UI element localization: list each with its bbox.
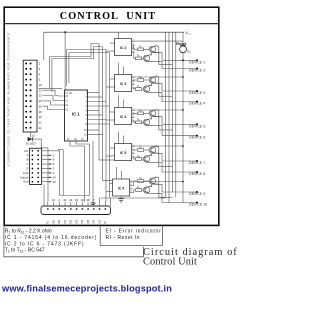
transistor T9 (149, 178, 155, 184)
wire: device output 10 (148, 193, 162, 202)
wire: IC 1 bottom pins down to lower port (70, 141, 85, 202)
wire: CN2 column riser to lower port (62, 150, 64, 196)
wire stubs: IC 1 outputs to bus (88, 92, 100, 94)
wire: device output 1 (154, 53, 162, 61)
wire: base drive IC 3 to T3 (133, 80, 136, 82)
svg-text:R6: R6 (137, 118, 140, 122)
resistor R9 (138, 180, 144, 183)
svg-text:16: 16 (81, 198, 85, 202)
title separator rule (5, 23, 219, 25)
svg-text:Unlock: Unlock (20, 175, 29, 179)
wire: base drive IC 2 to T2 (133, 51, 136, 53)
wire: collector rail above lower port (60, 195, 90, 197)
flip-flop IC 3 (7473 JKFF) (115, 75, 132, 92)
schematic border frame (4, 7, 219, 225)
wire: base drive IC 6 to T9 (133, 185, 134, 187)
connector CN1 (port, 2-column pin header) (23, 60, 37, 132)
wire: base drive IC 6 to T10 (133, 192, 134, 194)
svg-text:23: 23 (53, 180, 57, 184)
wire: device output 3 (154, 83, 162, 91)
transistor T6 (143, 119, 149, 125)
connector CN2 (control lines header) (30, 148, 42, 184)
svg-text:IC 5: IC 5 (120, 151, 126, 155)
wire: base drive IC 3 to T4 (133, 87, 136, 89)
wire: T8 collector branch (148, 153, 159, 156)
IC 1 right pin numbers (84, 91, 87, 137)
wire: Vcc to reset button (182, 32, 184, 46)
svg-text:R4: R4 (137, 85, 140, 89)
wire: base drive IC 2 to T1 (133, 44, 136, 46)
svg-text:A: A (27, 153, 29, 157)
wire bundle: CN1 to IC 1 address inputs (43, 90, 65, 96)
wire: buses into lower port pins (104, 201, 107, 203)
EI LED indicator (error indicator LED) (30, 132, 32, 137)
wire: base drive IC 5 to T8 (133, 156, 136, 158)
wire bundle: CN1 rows over the top to decoder buses (39, 87, 63, 89)
transistor T7 (149, 147, 155, 153)
svg-text:13: 13 (39, 94, 43, 98)
lower port connector (edge connector) (41, 206, 111, 215)
svg-text:R10: R10 (137, 186, 141, 190)
wire: T1 collector branch (154, 45, 159, 47)
svg-text:DEVICE 4: DEVICE 4 (189, 102, 205, 106)
lower port pins and numbers (47, 198, 106, 210)
wire: IC 3 reset feed line (135, 76, 183, 78)
svg-text:IC 3: IC 3 (120, 82, 126, 86)
wire: device output 5 (154, 117, 162, 125)
transistor T5 (149, 110, 155, 116)
svg-text:DEVICE 2: DEVICE 2 (189, 69, 205, 73)
svg-text:16: 16 (39, 110, 43, 114)
svg-text:5V: 5V (51, 220, 55, 224)
svg-text:DEVICE 5: DEVICE 5 (189, 124, 205, 128)
svg-text:EI LED: EI LED (26, 142, 36, 146)
wire: bottom return line (119, 197, 166, 199)
svg-text:R7: R7 (139, 146, 142, 150)
svg-text:B: B (27, 158, 29, 162)
transistor T1 (149, 46, 155, 52)
svg-text:D1: D1 (63, 219, 67, 223)
flip-flop IC 5 (7473 JKFF) (115, 144, 132, 161)
Vcc rail (44, 31, 184, 33)
lower port labels (rotated) (46, 219, 107, 223)
ground symbol below IC 6 (120, 196, 122, 199)
wire: IC 5 reset feed line (135, 145, 183, 147)
resistor R10 (136, 189, 142, 192)
wire: IC 6 reset feed line (133, 181, 183, 183)
svg-text:R2: R2 (137, 54, 140, 58)
svg-text:D4: D4 (80, 219, 84, 223)
svg-text:25: 25 (39, 99, 43, 103)
CN2 signal labels (20, 149, 29, 184)
svg-text:24: 24 (53, 175, 57, 179)
ground symbol below IC 1 (92, 141, 94, 203)
wire bus: decoder outputs vertical runs (98, 44, 100, 161)
svg-text:R3: R3 (139, 76, 142, 80)
wire: T3 collector branch (154, 76, 159, 78)
wire: IC 6 mid line (159, 196, 173, 198)
svg-text:G: G (46, 221, 50, 223)
wire: T9 collector branch (154, 177, 159, 179)
svg-text:IC 6: IC 6 (118, 186, 124, 190)
svg-text:D5: D5 (86, 219, 90, 223)
wire: IC 2 mid line (159, 63, 173, 65)
CN2 pin number arrows (42, 153, 57, 184)
svg-text:DEVICE 1: DEVICE 1 (189, 60, 205, 64)
wire: base drive IC 5 to T7 (133, 149, 136, 151)
svg-text:www.finalsemeceprojects.blogsp: www.finalsemeceprojects.blogspot.in (1, 283, 172, 293)
transistor T8 (143, 156, 149, 162)
svg-text:D7: D7 (97, 219, 101, 223)
wire: IC 4 reset feed line (135, 109, 183, 111)
transistor T2 (143, 55, 149, 61)
wire: base drive IC 4 to T5 (133, 113, 136, 115)
svg-text:D3: D3 (74, 219, 78, 223)
svg-text:R9: R9 (139, 177, 142, 181)
svg-text:10: 10 (39, 83, 43, 87)
svg-text:C: C (26, 162, 28, 166)
device output rows (189, 59, 207, 206)
wire: device output 2 (148, 62, 162, 69)
flip-flop IC 4 (7473 JKFF) (115, 108, 132, 125)
wire: IC 4 mid line (159, 129, 173, 131)
resistor R6 (136, 121, 142, 124)
svg-text:22: 22 (69, 198, 73, 202)
IC 1 left pin numbers (65, 95, 68, 112)
svg-text:IC 1: IC 1 (72, 111, 80, 116)
svg-text:DEVICE 3: DEVICE 3 (189, 91, 205, 95)
wire: T10 collector branch (148, 184, 159, 187)
wire: device output 6 (148, 126, 162, 136)
svg-text:CONTROL UNIT: CONTROL UNIT (60, 11, 156, 22)
flip-flop IC 6 (7473 JKFF) (113, 179, 130, 196)
wire: device output 7 (154, 153, 162, 161)
flip-flop IC 2 (7473 JKFF) (115, 39, 132, 56)
svg-text:IC 1 - 74154 (4 to 16 decod: IC 1 - 74154 (4 to 16 decoder) (5, 235, 98, 241)
svg-text:RI - Reset In: RI - Reset In (106, 235, 141, 241)
wire: device output 8 (148, 162, 162, 172)
legend key box (EI/RI) (100, 225, 162, 245)
reset push button (180, 44, 186, 46)
wire: base drive IC 4 to T6 (133, 120, 136, 122)
svg-text:T1 to T12 - BC 547: T1 to T12 - BC 547 (5, 247, 45, 253)
wire: CN2 gnd drop (43, 185, 45, 207)
wire: T6 collector branch (148, 116, 159, 119)
svg-text:R8: R8 (137, 155, 140, 159)
svg-text:19: 19 (39, 115, 43, 119)
wire bus: right side vertical runs (165, 32, 167, 198)
wire: T2 collector branch (148, 52, 159, 55)
svg-text:IC 2: IC 2 (120, 46, 126, 50)
svg-text:R1: R1 (139, 45, 142, 49)
svg-text:10: 10 (52, 198, 56, 202)
svg-text:Gnd: Gnd (23, 180, 29, 184)
svg-text:19: 19 (75, 198, 79, 202)
svg-text:DEVICE 9: DEVICE 9 (189, 192, 205, 196)
wire: T4 collector branch (148, 83, 159, 86)
svg-text:EI - Error indicator: EI - Error indicator (106, 228, 162, 234)
IC 1 - 74154 4-to-16 decoder (65, 90, 88, 141)
resistor R5 (138, 112, 144, 115)
svg-text:12: 12 (39, 88, 43, 92)
svg-text:21: 21 (63, 198, 67, 202)
svg-text:22: 22 (39, 126, 43, 130)
transistor T3 (149, 77, 155, 83)
svg-text:D2: D2 (69, 219, 73, 223)
wire: T5 collector branch (154, 109, 159, 111)
wire: IC 5 mid line (159, 166, 173, 168)
svg-text:Lock: Lock (23, 171, 29, 175)
wire: lock line down to lower port (47, 148, 49, 202)
wire: CN1 strobe up to rail (43, 32, 45, 60)
svg-text:D0: D0 (57, 219, 61, 223)
resistor R1 (138, 48, 144, 51)
svg-text:G: G (103, 221, 107, 223)
svg-text:IC 4: IC 4 (120, 115, 126, 119)
svg-text:DEVICE 8: DEVICE 8 (189, 172, 205, 176)
svg-text:DEVICE 10: DEVICE 10 (189, 203, 207, 207)
wire: IC 2 reset feed line (135, 40, 183, 42)
wire: lower port right tail (111, 198, 119, 206)
wire: CN2 Vcc row riser (42, 151, 60, 196)
svg-text:20: 20 (86, 198, 90, 202)
svg-text:Control Unit: Control Unit (143, 257, 197, 268)
wire: reset line down devices (182, 53, 184, 203)
svg-text:DEVICE 7: DEVICE 7 (189, 161, 205, 165)
transistor T4 (143, 86, 149, 92)
resistor R2 (136, 57, 142, 60)
resistor R8 (136, 158, 142, 161)
svg-text:15: 15 (39, 104, 43, 108)
wire: LED to lock circuit (32, 139, 41, 148)
wire: device output 4 (148, 92, 162, 101)
resistor R4 (136, 88, 142, 91)
resistor R3 (138, 79, 144, 82)
svg-text:D6: D6 (92, 219, 96, 223)
wire: IC 3 mid line (159, 95, 173, 97)
CN1 pin numbers (39, 62, 43, 130)
transistor T10 (143, 187, 149, 193)
svg-text:R1 to R11 - 2.2 K ohm: R1 to R11 - 2.2 K ohm (5, 228, 52, 234)
legend text (5, 228, 162, 253)
svg-text:CONNECTIONS TO THIS PORT ARE N: CONNECTIONS TO THIS PORT ARE NUMBERED FO… (6, 32, 10, 165)
svg-text:Vcc: Vcc (24, 149, 29, 153)
wire: rail junction down to IC 1 top (64, 31, 66, 33)
resistor R7 (138, 149, 144, 152)
svg-text:DEVICE 6: DEVICE 6 (189, 136, 205, 140)
wire: T7 collector branch (154, 146, 159, 148)
wire: device output 9 (154, 184, 162, 192)
svg-text:D: D (26, 166, 28, 170)
svg-text:21: 21 (39, 120, 43, 124)
legend box (4, 225, 144, 256)
